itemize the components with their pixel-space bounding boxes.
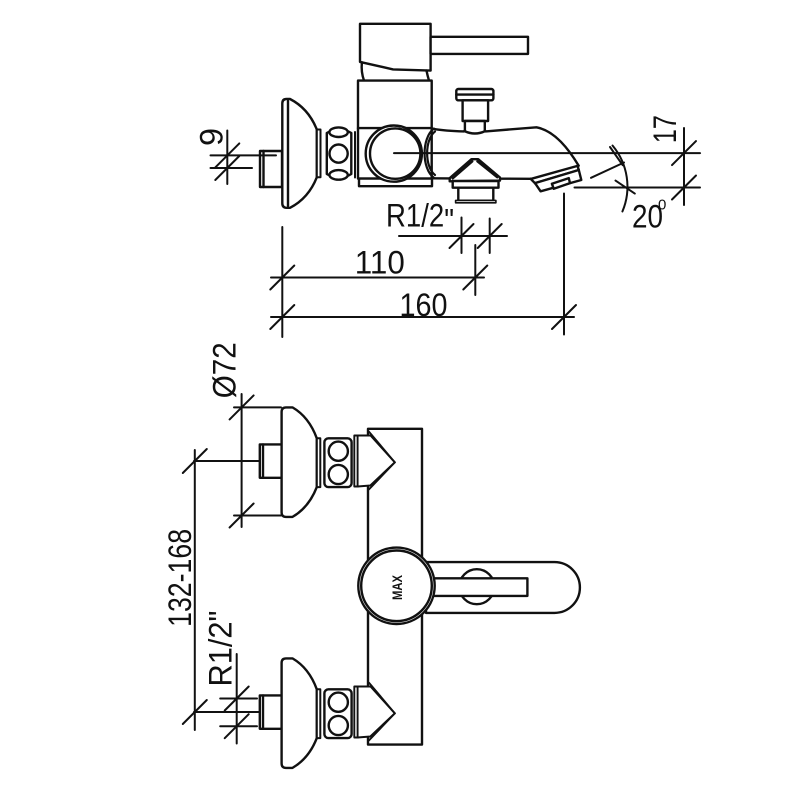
lower escutcheon neck band xyxy=(317,689,321,738)
svg-text:132-168: 132-168 xyxy=(162,529,198,627)
upper wall nipple xyxy=(260,444,282,477)
upper nut top circle xyxy=(329,442,348,461)
upper cone bottom outer edge xyxy=(369,462,395,489)
escutcheon neck band xyxy=(317,130,321,178)
cartridge cap inner circle xyxy=(370,128,420,178)
dimension 9: lower extension line xyxy=(211,167,253,169)
outlet cone inner left line xyxy=(453,161,473,178)
dimension 17: upper tick xyxy=(672,141,696,165)
lever handle rod xyxy=(431,37,528,54)
body joint line xyxy=(358,127,432,129)
dimension 110: right extension line xyxy=(474,245,476,295)
spout underside right segment xyxy=(502,177,531,180)
dimension R1/2 front view: upper extension line xyxy=(220,698,257,700)
svg-text:R1/2": R1/2" xyxy=(386,198,454,239)
wall plane extension line xyxy=(281,227,283,337)
upper escutcheon trumpet xyxy=(282,407,317,517)
dimension 9: upper extension line xyxy=(211,154,277,156)
dimension 20 deg: lower tick xyxy=(616,181,635,194)
union nut bottom ellipse xyxy=(329,170,347,180)
dimension R1/2 side view: left tick xyxy=(450,224,474,248)
spout end band lower line xyxy=(535,166,579,183)
dimension O72: lower extension line xyxy=(234,515,281,517)
dimension R1/2 side view: right tick xyxy=(478,224,502,248)
svg-text:Ø72: Ø72 xyxy=(207,342,243,398)
svg-text:110: 110 xyxy=(355,245,405,281)
dimension 20 deg: upper tick xyxy=(610,147,623,165)
upper nut bottom circle xyxy=(329,465,348,484)
dimension 160: dimension line xyxy=(271,316,574,318)
lower cone top outer edge xyxy=(369,683,395,714)
diverter knob cap xyxy=(456,89,493,100)
lower cone bottom outer edge xyxy=(369,713,395,740)
dimension 110: left tick xyxy=(270,266,294,290)
dimension 20 deg: angled ray xyxy=(591,163,624,178)
dimension 9: upper tick xyxy=(215,143,239,167)
upper wall connection, front view xyxy=(260,407,395,517)
dimension O72: lower tick xyxy=(230,504,254,528)
spout-body junction outer arc xyxy=(425,129,434,178)
outlet bottom lip xyxy=(456,200,496,202)
dimension O72: upper tick xyxy=(230,395,254,419)
aerator screen xyxy=(552,178,570,189)
dimension R1/2 side view: left extension line xyxy=(461,218,463,254)
outlet cone inner right line xyxy=(477,161,497,177)
outlet collar xyxy=(453,181,499,188)
wall nipple, side view xyxy=(260,151,282,187)
lower cone band xyxy=(354,687,358,738)
spout top edge and nose arc xyxy=(486,127,579,165)
upper union nut xyxy=(324,438,351,487)
dimension R1/2 front view: lower tick xyxy=(225,714,249,738)
diverter knob stem xyxy=(463,100,489,121)
svg-text:0: 0 xyxy=(658,197,666,214)
union nut middle circle xyxy=(330,145,348,163)
lower connection center line xyxy=(194,711,259,713)
upper connection center line xyxy=(194,460,259,462)
dimension R1/2 front view: upper tick xyxy=(225,687,249,711)
svg-text:17: 17 xyxy=(647,115,683,143)
dimension O72: upper extension line xyxy=(234,406,281,408)
dimension 17: lower extension line xyxy=(575,187,701,189)
dimension 17: lower tick xyxy=(672,176,696,200)
valve body block, side view xyxy=(358,81,432,179)
union nut barrel, side view xyxy=(327,129,352,178)
spout-body junction inner arc xyxy=(427,132,435,176)
lower nut bottom circle xyxy=(329,716,348,735)
handle rod, front view xyxy=(410,578,527,596)
dimension 20 deg: arc xyxy=(613,146,628,212)
dimension 132-168: lower tick xyxy=(183,700,207,724)
cartridge cap outer circle, front view xyxy=(358,548,434,624)
svg-text:R1/2": R1/2" xyxy=(202,611,238,687)
ring between nut and valve body xyxy=(354,132,356,178)
diverter knob cap mid line xyxy=(456,93,493,95)
handle collar right curve xyxy=(427,71,430,81)
dimension 17: dimension line xyxy=(683,128,685,205)
handle capsule, front view xyxy=(426,562,580,613)
union nut top ellipse xyxy=(329,127,347,137)
diverter knob neck xyxy=(464,121,485,134)
dimension 160: left tick xyxy=(270,305,294,329)
lower union nut xyxy=(324,689,351,738)
lower escutcheon trumpet xyxy=(282,658,317,768)
upper cone band xyxy=(354,436,358,487)
center line through cap and spout xyxy=(394,152,700,154)
cartridge cap inner circle, front view xyxy=(361,551,432,622)
upper eccentric cone xyxy=(358,436,395,487)
lower wall connection, front view xyxy=(260,658,395,768)
dimension 110: right tick xyxy=(463,266,487,290)
dimension 110: dimension line xyxy=(271,277,484,279)
aerator housing xyxy=(535,170,581,191)
lower wall nipple xyxy=(260,695,282,728)
svg-text:9: 9 xyxy=(194,128,230,146)
svg-text:MAX: MAX xyxy=(389,574,405,600)
dimension 9: lower tick xyxy=(215,156,239,180)
lever handle base xyxy=(360,24,431,71)
dimension 132-168: upper tick xyxy=(183,449,207,473)
spout top edge left segment xyxy=(434,129,464,132)
upper cone top outer edge xyxy=(369,432,395,463)
dimension 160: right extension line xyxy=(563,194,565,335)
bath outlet cone xyxy=(450,159,500,181)
dimension O72: dimension line xyxy=(241,394,243,527)
dimension R1/2 front view: lower extension line xyxy=(220,725,257,727)
lower eccentric cone xyxy=(358,687,395,738)
lower nut top circle xyxy=(329,693,348,712)
dimension 9: dimension line xyxy=(226,131,228,185)
dimension R1/2 front view: dimension line xyxy=(236,654,238,744)
svg-text:160: 160 xyxy=(400,287,448,323)
spout underside left segment xyxy=(432,177,450,179)
dimension R1/2 side view: right extension line xyxy=(489,219,491,254)
dimension 132-168: dimension line xyxy=(194,450,196,730)
handle screw circle xyxy=(459,569,494,604)
dimension 160: right tick xyxy=(552,305,576,329)
escutcheon trumpet, side view xyxy=(282,99,317,208)
upper escutcheon neck band xyxy=(317,438,321,487)
body bottom step xyxy=(359,179,432,187)
escutcheon face inner line xyxy=(287,101,289,206)
spout end band upper line xyxy=(531,166,578,184)
handle collar left curve xyxy=(362,62,364,80)
cartridge cap outer circle xyxy=(366,126,422,182)
dimension R1/2 side view: dimension line xyxy=(399,235,507,237)
outlet thread block xyxy=(458,188,493,201)
faucet body strip, front view xyxy=(368,429,422,745)
